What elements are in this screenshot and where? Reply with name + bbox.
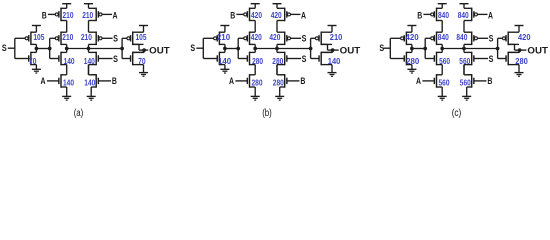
svg-text:A: A <box>41 76 46 86</box>
wire M12 drain to OUT <box>332 50 334 52</box>
pmos M1 S-inverter pull-up 210 <box>218 32 220 46</box>
svg-text:210: 210 <box>81 32 92 42</box>
pmos M7 gate A 420 <box>284 8 286 22</box>
ground output inverter <box>331 65 333 73</box>
nmos M12 output inverter pull-down 70 <box>132 52 134 66</box>
ground output inverter <box>518 65 520 73</box>
wire M12 drain to OUT <box>519 50 521 52</box>
vdd supply left stack <box>438 3 447 5</box>
svg-text:A: A <box>229 76 234 86</box>
svg-text:S: S <box>190 43 195 53</box>
node Sbar junction <box>35 47 39 51</box>
svg-text:560: 560 <box>459 56 470 66</box>
svg-text:S: S <box>113 33 118 43</box>
wire out-inverter input vertical <box>121 38 123 58</box>
pmos M11 output inverter pull-up 105 <box>132 32 134 46</box>
svg-text:70: 70 <box>138 56 146 66</box>
pmos M8 gate S 210 <box>95 32 97 46</box>
vdd supply output inverter <box>515 25 524 27</box>
svg-text:560: 560 <box>439 56 450 66</box>
ground right stack <box>90 87 92 96</box>
node Sbar junction <box>223 47 227 51</box>
ground left stack <box>66 87 68 96</box>
wire OUT <box>515 49 527 51</box>
pmos M1 S-inverter pull-up 420 <box>405 32 407 46</box>
wire M11 drain to OUT <box>514 44 516 50</box>
pmos M7 gate A 840 <box>471 8 473 22</box>
nmos M6 gate A 140 <box>60 74 62 88</box>
svg-text:420: 420 <box>518 32 531 42</box>
ground right stack <box>466 87 468 96</box>
vdd supply output inverter <box>328 25 337 27</box>
wire Sbar gate vertical <box>49 38 51 58</box>
svg-text:420: 420 <box>251 32 262 42</box>
wire Y node <box>255 48 310 50</box>
pmos M4 gate Sbar 840 <box>436 32 438 46</box>
pmos M1 S-inverter pull-up 105 <box>30 32 32 46</box>
svg-text:840: 840 <box>456 32 467 42</box>
svg-text:210: 210 <box>330 32 343 42</box>
vdd supply output inverter <box>139 25 148 27</box>
svg-text:420: 420 <box>271 10 282 20</box>
nmos M2 S-inverter pull-down 70 <box>30 52 32 66</box>
svg-text:420: 420 <box>269 32 280 42</box>
svg-text:280: 280 <box>515 56 528 66</box>
nmos M2 S-inverter pull-down 140 <box>218 52 220 66</box>
svg-text:S: S <box>302 54 307 64</box>
pmos M11 output inverter pull-up 420 <box>507 32 509 46</box>
svg-text:280: 280 <box>252 78 263 88</box>
svg-text:210: 210 <box>82 10 93 20</box>
node OUT junction <box>518 48 522 52</box>
pmos M11 output inverter pull-up 210 <box>320 32 322 46</box>
svg-text:140: 140 <box>63 78 74 88</box>
svg-text:70: 70 <box>29 56 37 66</box>
svg-text:B: B <box>112 76 117 86</box>
nmos M9 gate S 560 <box>471 52 473 66</box>
svg-text:280: 280 <box>273 78 284 88</box>
wire S input <box>383 47 390 49</box>
nmos M9 gate S 280 <box>284 52 286 66</box>
node Y left junction <box>65 47 69 51</box>
nmos M2 S-inverter pull-down 280 <box>405 52 407 66</box>
wire S gate vertical <box>202 38 204 58</box>
svg-text:140: 140 <box>84 56 95 66</box>
pmos M3 gate B 210 <box>60 8 62 22</box>
nmos M5 gate Sbar 280 <box>249 52 251 66</box>
pmos M3 gate B 840 <box>436 8 438 22</box>
svg-text:140: 140 <box>64 56 75 66</box>
wire Y node <box>67 48 122 50</box>
svg-text:A: A <box>301 11 306 21</box>
wire M11 drain to OUT <box>138 44 140 50</box>
wire S input <box>196 47 203 49</box>
wire row3-row4 right connector <box>463 65 465 75</box>
wire Sbar gate vertical <box>424 38 426 58</box>
svg-text:280: 280 <box>406 56 419 66</box>
svg-text:B: B <box>487 76 492 86</box>
wire Sbar gate vertical <box>237 38 239 58</box>
node out-inverter input tee <box>496 47 500 51</box>
node Sbar tee junction <box>236 47 240 51</box>
node Y right junction <box>275 47 279 51</box>
wire OUT <box>139 49 148 51</box>
svg-text:(a): (a) <box>74 108 84 119</box>
svg-text:B: B <box>230 11 235 21</box>
svg-text:OUT: OUT <box>149 45 170 56</box>
svg-text:140: 140 <box>218 56 231 66</box>
svg-text:280: 280 <box>252 56 263 66</box>
nmos M12 output inverter pull-down 280 <box>507 52 509 66</box>
vdd supply right stack <box>84 3 93 5</box>
svg-text:B: B <box>417 11 422 21</box>
svg-text:210: 210 <box>63 10 74 20</box>
wire out-inverter input vertical <box>497 38 499 58</box>
ground S-inverter <box>35 65 37 70</box>
nmos M5 gate Sbar 560 <box>436 52 438 66</box>
node OUT junction <box>331 48 335 52</box>
svg-text:S: S <box>489 54 494 64</box>
nmos M5 gate Sbar 140 <box>60 52 62 66</box>
wire out-inverter input vertical <box>310 38 312 58</box>
svg-text:B: B <box>42 11 47 21</box>
nmos M10 gate B 560 <box>471 74 473 88</box>
svg-text:S: S <box>302 33 307 43</box>
pmos M4 gate Sbar 210 <box>60 32 62 46</box>
ground right stack <box>279 87 281 96</box>
svg-text:420: 420 <box>251 10 262 20</box>
wire Sbar <box>225 48 238 50</box>
pmos M7 gate A 210 <box>95 8 97 22</box>
svg-text:A: A <box>416 76 421 86</box>
nmos M10 gate B 280 <box>284 74 286 88</box>
svg-text:840: 840 <box>438 32 449 42</box>
pmos M3 gate B 420 <box>249 8 251 22</box>
svg-text:105: 105 <box>136 32 147 42</box>
ground S-inverter <box>224 65 226 70</box>
wire row3-row4 right connector <box>276 65 278 75</box>
pmos M4 gate Sbar 420 <box>249 32 251 46</box>
svg-text:280: 280 <box>272 56 283 66</box>
node Y right junction <box>87 47 91 51</box>
nmos M10 gate B 140 <box>95 74 97 88</box>
wire Y node <box>442 48 497 50</box>
wire Sbar <box>412 48 425 50</box>
wire Sbar <box>36 48 49 50</box>
svg-text:S: S <box>489 33 494 43</box>
wire S gate vertical <box>389 38 391 58</box>
ground S-inverter <box>411 65 413 70</box>
vdd supply S-inverter <box>407 25 416 27</box>
node out-inverter input tee <box>309 47 313 51</box>
svg-text:(b): (b) <box>262 108 272 119</box>
svg-text:A: A <box>488 11 493 21</box>
wire M11 drain to OUT <box>327 44 329 50</box>
svg-text:OUT: OUT <box>340 45 361 56</box>
pmos M8 gate S 420 <box>284 32 286 46</box>
nmos M6 gate A 560 <box>436 74 438 88</box>
node Sbar tee junction <box>48 47 52 51</box>
svg-text:840: 840 <box>458 10 469 20</box>
wire row3-row4 right connector <box>88 65 90 75</box>
svg-text:(c): (c) <box>452 108 462 119</box>
svg-text:560: 560 <box>460 78 471 88</box>
node OUT junction <box>142 48 146 52</box>
node Y left junction <box>440 47 444 51</box>
svg-text:105: 105 <box>33 32 44 42</box>
ground output inverter <box>143 65 145 73</box>
pmos M8 gate S 840 <box>471 32 473 46</box>
vdd supply left stack <box>62 3 71 5</box>
vdd supply left stack <box>251 3 260 5</box>
svg-text:S: S <box>2 43 7 53</box>
svg-text:840: 840 <box>438 10 449 20</box>
wire M12 drain to OUT <box>143 50 145 52</box>
svg-text:140: 140 <box>84 78 95 88</box>
wire S gate vertical <box>14 38 16 58</box>
node Sbar tee junction <box>423 47 427 51</box>
svg-text:560: 560 <box>439 78 450 88</box>
svg-text:A: A <box>113 11 118 21</box>
svg-text:210: 210 <box>62 32 73 42</box>
nmos M9 gate S 140 <box>95 52 97 66</box>
svg-text:140: 140 <box>328 56 341 66</box>
ground left stack <box>441 87 443 96</box>
nmos M6 gate A 280 <box>249 74 251 88</box>
svg-text:210: 210 <box>217 32 230 42</box>
wire OUT <box>328 49 339 51</box>
vdd supply S-inverter <box>32 25 41 27</box>
nmos M12 output inverter pull-down 140 <box>320 52 322 66</box>
vdd supply right stack <box>460 3 469 5</box>
svg-text:S: S <box>113 54 118 64</box>
node Y left junction <box>253 47 257 51</box>
vdd supply right stack <box>273 3 282 5</box>
svg-text:B: B <box>300 76 305 86</box>
node Y right junction <box>462 47 466 51</box>
vdd supply S-inverter <box>220 25 229 27</box>
ground left stack <box>254 87 256 96</box>
node Sbar junction <box>410 47 414 51</box>
node out-inverter input tee <box>120 47 124 51</box>
wire S input <box>8 47 15 49</box>
svg-text:420: 420 <box>406 32 419 42</box>
svg-text:OUT: OUT <box>527 45 548 56</box>
